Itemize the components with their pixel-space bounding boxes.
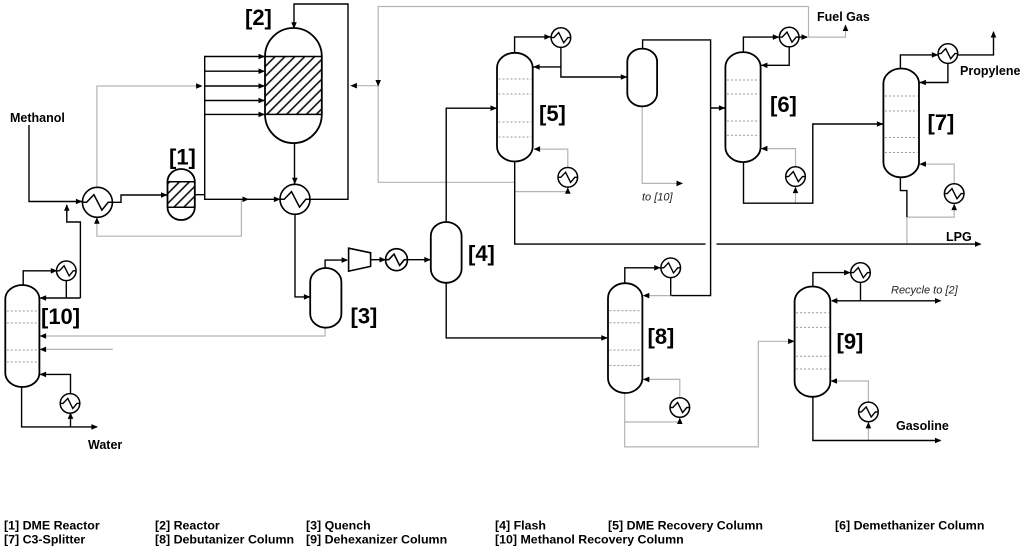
svg-text:[10]: [10] bbox=[41, 304, 80, 329]
vessel V4 flash [4] bbox=[431, 222, 462, 283]
heat exchanger E5 column 5 reboiler bbox=[558, 168, 578, 188]
wire gray quench bottoms to column 10 bbox=[40, 327, 326, 338]
label legend row 2 bbox=[4, 533, 684, 547]
heat exchanger E10 column 8 condenser bbox=[661, 258, 681, 278]
wire column 10 bottoms to water bbox=[22, 387, 98, 430]
wire gray column 6 reboiler loop bbox=[761, 146, 798, 203]
wire column 7 overhead to condenser E8 bbox=[900, 52, 938, 69]
heat exchanger E12 column 9 condenser bbox=[851, 263, 871, 283]
wire column 10 reboiler loop bbox=[40, 372, 74, 427]
svg-text:to [10]: to [10] bbox=[642, 192, 674, 204]
wire gray column 9 reboiler loop bbox=[831, 378, 872, 440]
wire column 10 distillate recycle join bbox=[40, 204, 81, 300]
wire gray preheat recycle loop to reactor manifold bbox=[94, 83, 241, 236]
wire gray column 5 reboiler loop bbox=[515, 146, 571, 194]
heat exchanger E9 column 7 reboiler bbox=[944, 184, 964, 204]
svg-text:[4]: [4] bbox=[468, 241, 495, 266]
svg-text:[4] Flash: [4] Flash bbox=[495, 519, 546, 533]
vessel V3 quench [3] bbox=[310, 268, 341, 328]
svg-text:Methanol: Methanol bbox=[10, 111, 65, 125]
column C9 [9] bbox=[795, 287, 831, 397]
heat exchanger E6 column 6 condenser bbox=[779, 27, 799, 47]
svg-text:[3] Quench: [3] Quench bbox=[306, 519, 371, 533]
heat exchanger E14 column 10 condenser bbox=[57, 261, 77, 281]
reflux drum D5 bbox=[627, 49, 657, 107]
wire gray from [5] connector into column 10 bbox=[40, 347, 113, 353]
svg-text:[7]: [7] bbox=[928, 110, 955, 135]
wire column 5 overhead to condenser E4 bbox=[515, 34, 551, 53]
heat exchanger E13 column 9 reboiler bbox=[859, 402, 879, 422]
wire quench overhead to compressor bbox=[325, 257, 348, 268]
wire column 5 bottoms and LPG header bbox=[515, 162, 982, 247]
svg-text:[5]: [5] bbox=[539, 101, 566, 126]
wire compressor to cooler E3 bbox=[371, 257, 386, 263]
svg-text:Propylene: Propylene bbox=[960, 64, 1020, 78]
wire condenser E6 outlet to fuel gas header bbox=[799, 34, 808, 40]
svg-text:[6] Demethanizer Column: [6] Demethanizer Column bbox=[835, 519, 984, 533]
heat exchanger E3 compressor aftercooler bbox=[386, 249, 408, 271]
wire condenser E8 reflux to column 7 bbox=[919, 63, 948, 85]
svg-text:[8]: [8] bbox=[648, 324, 675, 349]
wire column 9 bottoms to gasoline bbox=[813, 396, 942, 443]
column C8 [8] bbox=[608, 283, 642, 393]
heat exchanger E11 column 8 reboiler bbox=[670, 398, 690, 418]
wire preheater E1 outlet to DME reactor bbox=[112, 192, 167, 202]
svg-text:[1]: [1] bbox=[169, 144, 196, 169]
svg-text:[1] DME Reactor: [1] DME Reactor bbox=[4, 519, 100, 533]
wire condenser E8 outlet to propylene bbox=[957, 31, 996, 55]
wire gray drum bottoms to [10] connector bbox=[642, 107, 683, 187]
wire reactor inlet distributors bbox=[205, 54, 265, 117]
svg-text:[8] Debutanizer Column: [8] Debutanizer Column bbox=[155, 533, 294, 547]
heat exchanger E7 column 6 reboiler bbox=[786, 167, 806, 187]
svg-text:[2] Reactor: [2] Reactor bbox=[155, 519, 220, 533]
svg-text:[10] Methanol Recovery Column: [10] Methanol Recovery Column bbox=[495, 533, 684, 547]
wire condenser E10 outlet bbox=[670, 278, 672, 296]
wire condenser E6 reflux to column 6 bbox=[761, 47, 789, 68]
wire condenser E12 outlet reflux and recycle to [2] bbox=[831, 283, 942, 304]
wire column 7 bottoms step bbox=[900, 178, 907, 218]
wire gray fuel-gas header and recycle downcomer bbox=[350, 7, 848, 183]
svg-text:[5] DME Recovery Column: [5] DME Recovery Column bbox=[608, 519, 763, 533]
wire column 8 overhead to condenser E10 bbox=[625, 265, 661, 284]
reactor R2 [2] bbox=[265, 28, 322, 143]
svg-text:[7] C3-Splitter: [7] C3-Splitter bbox=[4, 533, 85, 547]
label legend row 1 bbox=[4, 519, 984, 533]
column C6 [6] bbox=[725, 52, 760, 162]
svg-text:LPG: LPG bbox=[946, 230, 972, 244]
wire cooler E3 to flash bbox=[406, 257, 431, 263]
heat exchanger E8 column 7 condenser bbox=[938, 44, 958, 64]
heat exchanger E15 column 10 reboiler bbox=[60, 394, 80, 414]
wire gray column 8 bottoms to column 9 feed bbox=[625, 339, 795, 447]
wire column 6 bottoms to column 7 feed bbox=[744, 121, 884, 203]
wire methanol feed bbox=[29, 125, 82, 204]
column C10 [10] bbox=[5, 285, 39, 387]
compressor K1 bbox=[349, 248, 371, 271]
wire drum overhead header to columns 6 and 8 bbox=[643, 40, 726, 296]
svg-text:Fuel Gas: Fuel Gas bbox=[817, 10, 870, 24]
svg-text:[3]: [3] bbox=[351, 304, 378, 329]
wire gray column 8 reflux segment bbox=[643, 293, 672, 299]
wire reactor effluent into interchanger E2 bbox=[292, 143, 298, 184]
svg-text:Gasoline: Gasoline bbox=[896, 419, 949, 433]
svg-text:[2]: [2] bbox=[245, 5, 272, 30]
column C7 [7] bbox=[883, 69, 919, 178]
wire interchanger E2 to quench bbox=[295, 214, 310, 299]
svg-text:Water: Water bbox=[88, 438, 122, 452]
svg-text:[9] Dehexanizer Column: [9] Dehexanizer Column bbox=[306, 533, 447, 547]
heat exchanger E1 feed preheater bbox=[82, 187, 112, 217]
column C5 [5] bbox=[497, 53, 533, 162]
svg-text:Recycle to [2]: Recycle to [2] bbox=[891, 285, 959, 297]
wire gray column 8 reboiler loop bbox=[625, 377, 683, 424]
heat exchanger E2 feed effluent interchanger bbox=[280, 184, 310, 214]
svg-text:[6]: [6] bbox=[770, 92, 797, 117]
svg-text:[9]: [9] bbox=[837, 329, 864, 354]
wire column 9 overhead to condenser E12 bbox=[813, 270, 851, 287]
wire gray column 7 bottoms and reboiler loop bbox=[907, 161, 957, 244]
wire condenser E4 outlet to reflux drum and reflux bbox=[533, 48, 627, 80]
wire flash bottoms to column 8 feed bbox=[446, 283, 608, 341]
wire column 6 overhead to condenser E6 bbox=[743, 34, 779, 52]
wire DME reactor outlet and reactor inlet manifold bbox=[195, 4, 348, 202]
heat exchanger E4 column 5 condenser bbox=[551, 28, 571, 48]
reactor R1 [1] bbox=[168, 169, 195, 220]
wire column 10 overhead to condenser bbox=[23, 268, 57, 286]
wire flash overhead to column 5 feed bbox=[446, 105, 497, 222]
